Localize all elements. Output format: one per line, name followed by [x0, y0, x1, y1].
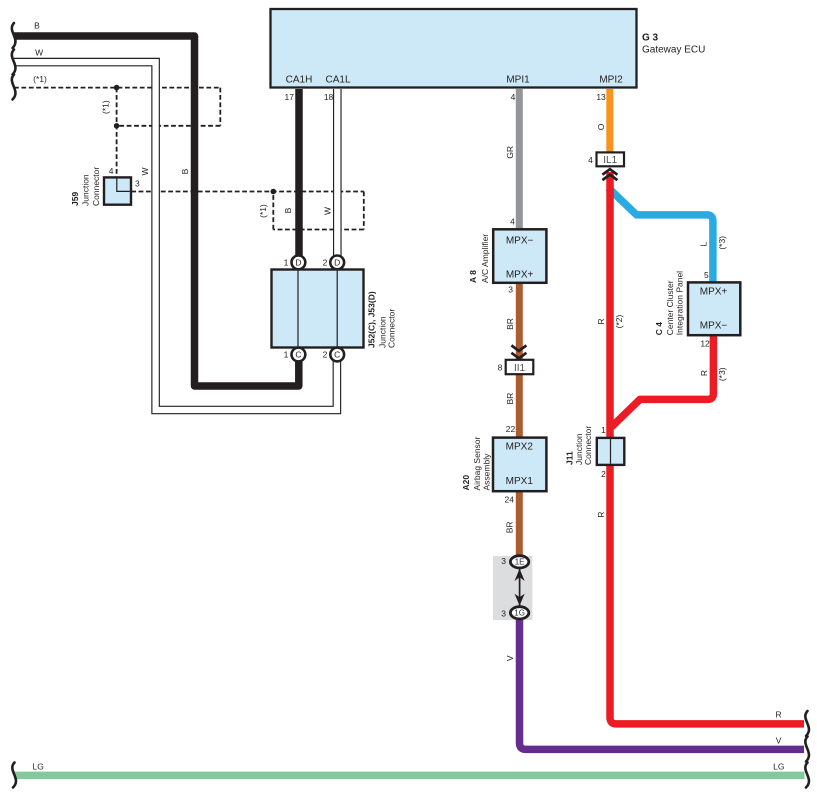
svg-text:LG: LG — [33, 762, 44, 772]
svg-text:V: V — [776, 736, 782, 746]
svg-text:A20: A20 — [461, 475, 471, 491]
svg-text:MPI2: MPI2 — [599, 75, 623, 86]
svg-text:II1: II1 — [514, 363, 526, 374]
svg-text:R: R — [596, 512, 606, 518]
svg-text:18: 18 — [324, 92, 334, 102]
svg-text:Airbag Sensor: Airbag Sensor — [472, 436, 482, 490]
svg-text:5: 5 — [704, 270, 709, 280]
svg-text:1G: 1G — [514, 609, 525, 618]
svg-text:MPX+: MPX+ — [506, 270, 534, 281]
svg-text:GR: GR — [505, 146, 515, 159]
svg-text:D: D — [295, 258, 301, 268]
svg-text:W: W — [140, 167, 150, 175]
svg-text:(*1): (*1) — [33, 74, 47, 84]
svg-text:4: 4 — [511, 92, 516, 102]
svg-text:Integration Panel: Integration Panel — [674, 271, 684, 335]
svg-text:8: 8 — [498, 362, 503, 372]
svg-text:C: C — [295, 350, 301, 360]
svg-text:1: 1 — [601, 425, 606, 435]
svg-text:(*2): (*2) — [614, 314, 624, 328]
svg-text:3: 3 — [135, 179, 140, 189]
svg-text:W: W — [323, 207, 333, 215]
svg-text:BR: BR — [505, 393, 515, 405]
svg-text:G 3: G 3 — [642, 33, 659, 44]
svg-text:A 8: A 8 — [468, 270, 478, 283]
svg-text:L: L — [698, 241, 708, 246]
svg-text:3: 3 — [501, 608, 506, 618]
svg-text:2: 2 — [601, 469, 606, 479]
svg-text:MPX+: MPX+ — [700, 286, 728, 297]
svg-text:O: O — [596, 123, 606, 130]
svg-text:(*3): (*3) — [717, 367, 727, 381]
svg-text:Center Cluster: Center Cluster — [665, 280, 675, 335]
svg-text:1: 1 — [284, 350, 289, 360]
svg-text:Junction: Junction — [81, 174, 91, 206]
svg-text:(*1): (*1) — [101, 100, 111, 114]
svg-text:Gateway ECU: Gateway ECU — [642, 45, 705, 56]
svg-text:13: 13 — [596, 92, 606, 102]
svg-text:4: 4 — [510, 216, 515, 226]
svg-text:MPI1: MPI1 — [506, 75, 530, 86]
svg-text:3: 3 — [508, 284, 513, 294]
svg-text:2: 2 — [323, 258, 328, 268]
svg-text:J11: J11 — [564, 451, 574, 465]
svg-text:A/C Amplifier: A/C Amplifier — [480, 234, 490, 283]
svg-text:MPX−: MPX− — [506, 235, 534, 246]
svg-text:(*1): (*1) — [258, 204, 268, 218]
svg-text:R: R — [776, 710, 782, 720]
svg-text:2: 2 — [323, 350, 328, 360]
svg-text:CA1L: CA1L — [325, 75, 350, 86]
svg-text:J52(C), J53(D): J52(C), J53(D) — [367, 291, 377, 348]
svg-text:BR: BR — [505, 318, 515, 330]
svg-text:17: 17 — [285, 92, 295, 102]
svg-text:D: D — [334, 258, 340, 268]
svg-text:3: 3 — [501, 556, 506, 566]
svg-text:Connector: Connector — [386, 309, 396, 348]
svg-text:Assembly: Assembly — [482, 453, 492, 491]
svg-text:MPX−: MPX− — [700, 321, 728, 332]
svg-text:MPX2: MPX2 — [506, 442, 534, 453]
svg-text:R: R — [699, 370, 709, 376]
svg-text:C 4: C 4 — [654, 322, 664, 336]
svg-text:R: R — [596, 318, 606, 324]
svg-text:24: 24 — [505, 495, 515, 505]
svg-text:LG: LG — [773, 762, 784, 772]
svg-text:Connector: Connector — [91, 167, 101, 206]
svg-text:CA1H: CA1H — [286, 75, 313, 86]
svg-text:C: C — [334, 350, 340, 360]
svg-text:V: V — [505, 655, 515, 661]
svg-text:B: B — [180, 168, 190, 174]
svg-text:Connector: Connector — [583, 426, 593, 465]
svg-text:W: W — [35, 48, 43, 58]
svg-text:(*3): (*3) — [717, 236, 727, 250]
svg-text:1E: 1E — [515, 558, 525, 567]
svg-text:12: 12 — [700, 339, 710, 349]
svg-text:IL1: IL1 — [603, 155, 617, 166]
svg-text:MPX1: MPX1 — [506, 476, 534, 487]
svg-text:B: B — [283, 207, 293, 213]
svg-text:4: 4 — [588, 155, 593, 165]
svg-text:BR: BR — [505, 521, 515, 533]
svg-text:4: 4 — [109, 166, 114, 176]
svg-text:J59: J59 — [70, 192, 80, 206]
svg-text:B: B — [34, 21, 40, 31]
svg-text:1: 1 — [284, 258, 289, 268]
svg-text:22: 22 — [506, 424, 516, 434]
